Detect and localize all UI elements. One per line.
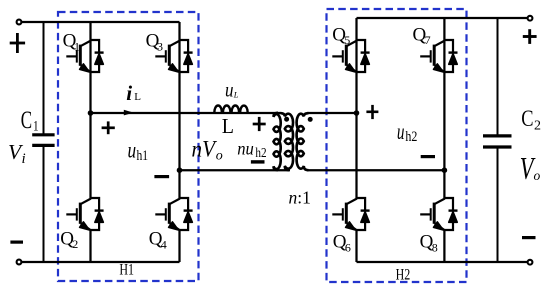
nuh2 plus <box>253 117 266 131</box>
transformer T1 primary winding (magnetizing branch column) <box>274 113 281 170</box>
svg-text:H2: H2 <box>396 266 411 284</box>
svg-text:h2: h2 <box>405 128 417 145</box>
svg-text:C: C <box>21 106 32 134</box>
transformer T1 secondary dot <box>308 117 313 122</box>
transistor Q5 <box>332 40 369 72</box>
wire: right bottom rail <box>357 261 531 263</box>
svg-text:u: u <box>397 120 405 145</box>
wire: right top rail <box>357 17 531 19</box>
wire: secondary bottom to H2 right midpoint <box>307 169 444 171</box>
wire: left bottom rail <box>19 261 180 263</box>
node C: H2 left leg midpoint junction <box>354 110 360 116</box>
svg-text:8: 8 <box>432 240 438 254</box>
output plus sign <box>523 29 537 44</box>
terminal: output - <box>528 260 533 265</box>
svg-text:o: o <box>534 168 541 183</box>
svg-text:7: 7 <box>425 33 431 47</box>
svg-text:2: 2 <box>534 118 541 133</box>
svg-text:4: 4 <box>161 237 167 251</box>
transistor Q4 <box>155 198 192 230</box>
terminal: input - <box>17 260 22 265</box>
wire: H1 left leg <box>89 22 91 198</box>
wire: H2 left leg lower <box>355 230 357 262</box>
svg-text:L: L <box>222 116 234 139</box>
transistor Q7 <box>420 40 457 72</box>
transformer T1 primary dot <box>284 117 289 122</box>
svg-text:u: u <box>128 138 137 163</box>
terminal: input + <box>17 20 22 25</box>
uh1 plus <box>102 121 115 134</box>
transistor Q8 <box>420 198 457 230</box>
svg-text:5: 5 <box>344 33 350 47</box>
uh2 minus <box>421 155 435 158</box>
svg-text:n:1: n:1 <box>289 188 311 208</box>
node D: H2 right leg midpoint junction <box>442 167 448 173</box>
transistor Q1 <box>66 40 103 72</box>
svg-text:1: 1 <box>33 117 39 134</box>
input plus sign <box>10 33 25 53</box>
uh1 minus <box>154 175 169 178</box>
wire: H2 right leg <box>443 18 445 198</box>
transformer T1 secondary winding <box>297 113 309 170</box>
inductor L <box>214 105 247 112</box>
wire: H1 right midpoint to primary bottom <box>180 169 291 171</box>
svg-text:1: 1 <box>74 39 80 53</box>
svg-text:nu: nu <box>237 139 254 158</box>
svg-text:3: 3 <box>157 39 163 53</box>
node A: H1 left leg midpoint junction <box>88 110 94 116</box>
svg-text:i: i <box>126 81 132 105</box>
output minus sign <box>522 236 536 239</box>
svg-text:6: 6 <box>345 240 351 254</box>
svg-text:h2: h2 <box>255 145 266 160</box>
H1 bridge dashed box <box>58 12 199 281</box>
wire: iL wire from H1 left midpoint to transformer primary <box>91 112 282 114</box>
svg-text:L: L <box>134 91 141 103</box>
svg-text:i: i <box>22 151 26 167</box>
transistor Q6 <box>332 198 369 230</box>
transformer T1 primary winding (coupled column) <box>281 113 294 170</box>
wire: H1 right leg lower <box>178 230 180 262</box>
svg-text:nV: nV <box>192 136 218 162</box>
svg-text:H1: H1 <box>119 261 134 279</box>
svg-text:u: u <box>225 79 234 102</box>
input minus sign <box>10 241 23 244</box>
wire: left top rail <box>19 21 180 23</box>
wire: secondary top to H2 left midpoint <box>307 112 357 114</box>
wire: H1 right leg <box>178 22 180 198</box>
nuh2 minus <box>251 160 265 163</box>
wire: H1 left leg lower <box>89 230 91 262</box>
node B: H1 right leg midpoint junction <box>177 167 183 173</box>
capacitor C2 <box>483 18 512 262</box>
wire: H2 left leg <box>355 18 357 198</box>
svg-text:C: C <box>521 105 533 132</box>
uh2 plus <box>366 105 378 119</box>
H2 bridge dashed box <box>327 9 467 282</box>
svg-text:h1: h1 <box>137 147 149 164</box>
svg-text:2: 2 <box>72 237 78 251</box>
svg-text:L: L <box>233 89 239 99</box>
current arrow iL <box>124 110 134 116</box>
capacitor C1 <box>32 22 54 262</box>
transistor Q2 <box>66 198 103 230</box>
terminal: output + <box>528 16 533 21</box>
transistor Q3 <box>155 40 192 72</box>
svg-text:o: o <box>216 148 223 163</box>
wire: H2 right leg lower <box>443 230 445 262</box>
